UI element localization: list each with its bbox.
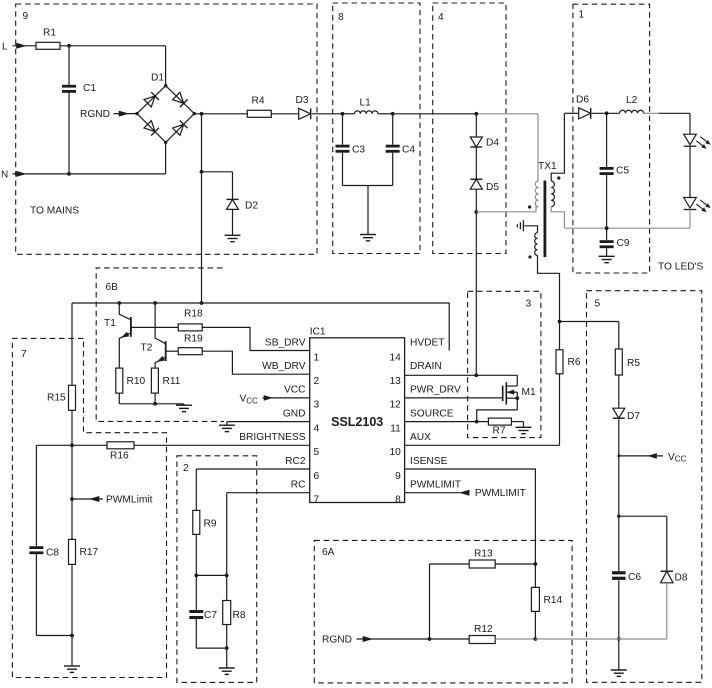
svg-text:SB_DRV: SB_DRV bbox=[265, 337, 306, 348]
svg-text:R13: R13 bbox=[474, 549, 493, 560]
svg-text:8: 8 bbox=[395, 495, 401, 506]
svg-text:2: 2 bbox=[314, 376, 320, 387]
svg-text:PWMLimit: PWMLimit bbox=[106, 495, 153, 506]
svg-text:4: 4 bbox=[314, 423, 320, 434]
svg-text:RGND: RGND bbox=[322, 635, 352, 646]
svg-text:RC: RC bbox=[291, 480, 306, 491]
svg-text:C4: C4 bbox=[402, 145, 415, 156]
svg-text:10: 10 bbox=[389, 447, 401, 458]
svg-text:3: 3 bbox=[526, 298, 532, 309]
svg-text:R12: R12 bbox=[474, 624, 493, 635]
svg-text:6B: 6B bbox=[106, 282, 119, 293]
svg-text:C7: C7 bbox=[204, 610, 217, 621]
svg-text:D3: D3 bbox=[296, 95, 309, 106]
svg-text:D8: D8 bbox=[675, 572, 688, 583]
svg-text:5: 5 bbox=[314, 447, 320, 458]
svg-text:8: 8 bbox=[338, 12, 344, 23]
svg-text:IC1: IC1 bbox=[310, 327, 326, 338]
svg-text:13: 13 bbox=[389, 376, 401, 387]
svg-text:N: N bbox=[1, 170, 8, 181]
svg-text:R11: R11 bbox=[163, 376, 181, 387]
svg-text:BRIGHTNESS: BRIGHTNESS bbox=[239, 432, 305, 443]
svg-text:RGND: RGND bbox=[80, 109, 110, 120]
svg-text:R9: R9 bbox=[204, 519, 217, 530]
svg-text:SOURCE: SOURCE bbox=[410, 408, 454, 419]
svg-text:C6: C6 bbox=[628, 572, 641, 583]
svg-text:AUX: AUX bbox=[410, 432, 431, 443]
svg-text:PWMLIMIT: PWMLIMIT bbox=[410, 480, 461, 491]
svg-text:PWR_DRV: PWR_DRV bbox=[410, 385, 461, 396]
svg-text:R1: R1 bbox=[43, 28, 56, 39]
svg-text:C3: C3 bbox=[352, 145, 365, 156]
svg-text:6: 6 bbox=[314, 471, 320, 482]
svg-text:R6: R6 bbox=[568, 357, 581, 368]
svg-text:R10: R10 bbox=[127, 376, 146, 387]
svg-text:C9: C9 bbox=[617, 238, 630, 249]
svg-text:12: 12 bbox=[389, 400, 401, 411]
svg-text:14: 14 bbox=[389, 352, 401, 363]
svg-text:4: 4 bbox=[438, 12, 444, 23]
svg-text:M1: M1 bbox=[522, 387, 536, 398]
svg-text:C1: C1 bbox=[83, 83, 96, 94]
svg-text:T1: T1 bbox=[104, 318, 116, 329]
svg-text:1: 1 bbox=[579, 10, 585, 21]
svg-text:6A: 6A bbox=[322, 547, 335, 558]
svg-text:C8: C8 bbox=[46, 548, 59, 559]
svg-text:VCC: VCC bbox=[284, 385, 306, 396]
svg-text:DRAIN: DRAIN bbox=[410, 361, 442, 372]
svg-text:7: 7 bbox=[314, 495, 320, 506]
svg-text:D1: D1 bbox=[151, 73, 164, 84]
svg-text:L1: L1 bbox=[360, 98, 372, 109]
svg-text:T2: T2 bbox=[141, 343, 153, 354]
svg-text:D5: D5 bbox=[486, 182, 499, 193]
svg-text:D2: D2 bbox=[245, 201, 258, 212]
svg-text:WB_DRV: WB_DRV bbox=[262, 361, 306, 372]
svg-text:SSL2103: SSL2103 bbox=[331, 415, 383, 429]
svg-text:ISENSE: ISENSE bbox=[410, 456, 448, 467]
svg-text:D7: D7 bbox=[627, 411, 640, 422]
svg-text:GND: GND bbox=[283, 408, 306, 419]
svg-text:3: 3 bbox=[314, 400, 320, 411]
svg-text:PWMLIMIT: PWMLIMIT bbox=[475, 488, 526, 499]
svg-text:RC2: RC2 bbox=[285, 456, 306, 467]
svg-text:1: 1 bbox=[314, 352, 320, 363]
svg-text:C5: C5 bbox=[616, 166, 629, 177]
svg-text:9: 9 bbox=[395, 471, 401, 482]
svg-text:R4: R4 bbox=[252, 96, 265, 107]
svg-text:7: 7 bbox=[21, 349, 27, 360]
svg-text:D6: D6 bbox=[576, 95, 589, 106]
svg-text:TO MAINS: TO MAINS bbox=[30, 206, 79, 217]
svg-text:TX1: TX1 bbox=[538, 161, 557, 172]
svg-text:HVDET: HVDET bbox=[410, 337, 445, 348]
svg-text:R5: R5 bbox=[627, 358, 640, 369]
svg-text:L: L bbox=[2, 42, 8, 53]
svg-text:R8: R8 bbox=[233, 610, 246, 621]
svg-text:L2: L2 bbox=[626, 95, 638, 106]
svg-text:11: 11 bbox=[390, 423, 401, 434]
svg-text:R16: R16 bbox=[110, 451, 129, 462]
svg-text:5: 5 bbox=[595, 299, 601, 310]
svg-text:R18: R18 bbox=[184, 309, 203, 320]
svg-text:D4: D4 bbox=[486, 138, 499, 149]
svg-text:TO LED'S: TO LED'S bbox=[658, 262, 704, 273]
svg-text:R14: R14 bbox=[544, 595, 563, 606]
svg-text:R15: R15 bbox=[47, 393, 66, 404]
svg-text:R7: R7 bbox=[493, 426, 506, 437]
svg-text:R17: R17 bbox=[80, 547, 99, 558]
svg-text:2: 2 bbox=[183, 463, 189, 474]
svg-text:R19: R19 bbox=[184, 334, 203, 345]
svg-text:9: 9 bbox=[23, 11, 29, 22]
